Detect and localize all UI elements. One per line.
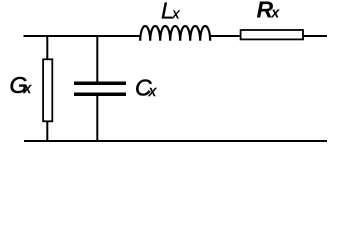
- label Rx: [257, 0, 281, 23]
- label Cx: [135, 74, 157, 100]
- wire bottom rail: [24, 140, 327, 142]
- wire top rail left segment: [24, 35, 142, 37]
- svg-text:x: x: [270, 6, 280, 22]
- svg-text:x: x: [171, 7, 180, 23]
- wire Cx branch bottom: [96, 96, 98, 141]
- svg-text:x: x: [23, 81, 32, 97]
- wire Gx branch top: [46, 35, 48, 59]
- wire top rail right segment: [304, 35, 327, 37]
- resistor Gx body: [43, 59, 52, 121]
- resistor Rx body: [241, 30, 303, 39]
- wire between inductor and resistor: [210, 35, 239, 37]
- wire Cx branch top: [96, 35, 98, 82]
- inductor Lx coil: [140, 26, 210, 41]
- svg-text:x: x: [148, 84, 157, 100]
- capacitor Cx top plate: [74, 82, 126, 86]
- capacitor Cx bottom plate: [74, 92, 126, 96]
- label Gx: [10, 72, 32, 98]
- wire Gx branch bottom: [46, 122, 48, 141]
- label Lx: [161, 0, 180, 24]
